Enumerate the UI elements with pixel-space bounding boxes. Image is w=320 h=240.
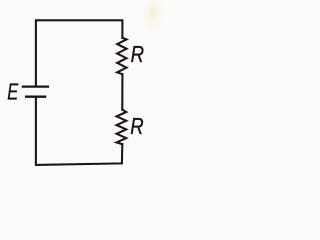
battery E short plate bbox=[25, 96, 46, 98]
battery E long plate bbox=[22, 85, 49, 87]
svg-text:R: R bbox=[130, 113, 143, 139]
resistor R2 bbox=[117, 110, 127, 145]
resistor R1 bbox=[117, 38, 126, 74]
wire: between R1 and R2 bbox=[121, 74, 123, 109]
svg-text:E: E bbox=[7, 79, 18, 105]
wire: left + top + right lead into R1 bbox=[36, 20, 123, 85]
wire: bottom return to battery bbox=[36, 98, 122, 165]
svg-text:R: R bbox=[131, 41, 144, 67]
